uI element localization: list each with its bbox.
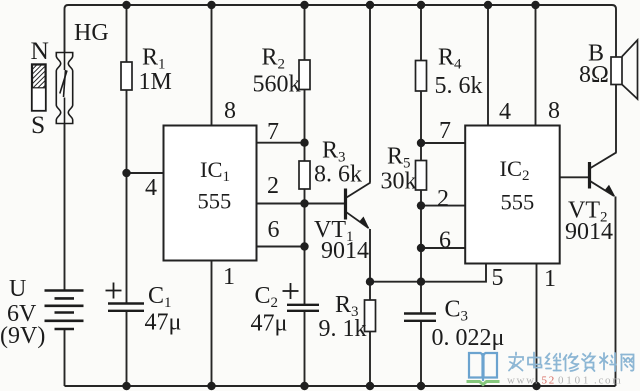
reed switch moving contact diagonal — [60, 71, 67, 94]
wire C2 to bottom rail — [304, 312, 306, 387]
wei — [546, 354, 550, 365]
svg-text:R2: R2 — [262, 45, 286, 73]
wire R1 to C1 with node at pin4 tap — [126, 90, 128, 303]
reed switch top contact lead — [64, 70, 66, 97]
speaker B cone — [622, 40, 638, 99]
svg-text:www.: www. — [507, 375, 539, 387]
reed switch wire into capsule top — [64, 52, 66, 70]
resistor R3 9.1k — [365, 300, 376, 332]
wire IC1 pin 7 — [257, 142, 305, 144]
node C3 top / pin5 wire — [417, 278, 425, 286]
zi — [583, 354, 586, 356]
node top rail junctions — [122, 1, 539, 9]
transistor VT2 emitter stroke with arrow — [591, 181, 616, 197]
wire IC1 pin 6 — [257, 246, 305, 248]
watermark book icon — [469, 353, 497, 381]
resistor R1 — [121, 62, 132, 90]
wire R2 to R3 with pin7 node — [304, 90, 306, 162]
svg-text:555: 555 — [198, 189, 232, 214]
xiu — [564, 355, 567, 360]
svg-text:8: 8 — [224, 98, 236, 124]
wire IC2 pin 8 from top rail — [535, 5, 537, 126]
svg-text:R5: R5 — [387, 144, 411, 172]
svg-text:52: 52 — [542, 375, 556, 387]
transistor VT2 base bar — [588, 162, 591, 189]
svg-text:C2: C2 — [255, 283, 279, 311]
IC U1 555 box IC1 — [164, 126, 257, 261]
wire top-right corner down to speaker — [612, 5, 616, 57]
wire R5 to C3 through pin2,pin6,pin5 nodes — [420, 190, 422, 314]
svg-text:6: 6 — [268, 217, 280, 243]
svg-text:0101: 0101 — [558, 375, 591, 387]
svg-text:7: 7 — [267, 119, 279, 145]
resistor R4 — [416, 61, 427, 92]
wire IC2 pin 5 down and left to VT1 emitter node — [370, 264, 486, 282]
wire IC1 pin 1 to bottom rail — [211, 261, 213, 387]
IC U2 555 box IC2 — [465, 126, 560, 264]
svg-text:C1: C1 — [148, 283, 172, 311]
svg-text:(9V): (9V) — [0, 323, 45, 349]
svg-text:.com: .com — [594, 375, 623, 387]
liao — [603, 353, 605, 370]
watermark chinese text — [509, 353, 634, 372]
transistor VT1 collector stroke — [347, 183, 371, 198]
wire IC2 pin 1 to bottom rail — [536, 264, 538, 387]
wire IC1 pin 4 — [127, 172, 164, 174]
wire R1 branch: top rail to R1 — [126, 5, 128, 62]
wire IC2 pin 6 — [421, 247, 465, 249]
wire VT1 emitter down to pin5 node — [369, 229, 371, 300]
svg-text:2: 2 — [267, 173, 279, 199]
watermark url text — [507, 375, 623, 387]
svg-text:6: 6 — [439, 228, 451, 254]
capacitor C1 plates — [108, 304, 144, 311]
wire C1 to bottom rail — [126, 312, 128, 387]
svg-text:C3: C3 — [445, 297, 469, 325]
wire top supply rail — [68, 4, 612, 6]
wang — [621, 355, 634, 371]
jia — [515, 353, 517, 356]
node bottom rail junctions — [122, 382, 540, 390]
svg-text:4: 4 — [145, 175, 157, 201]
wire top-left corner down to reed switch — [65, 5, 69, 52]
node IC1 pin4 tap — [122, 169, 130, 177]
svg-text:8. 6k: 8. 6k — [314, 162, 362, 188]
wire IC2 pin 4 from top rail — [487, 5, 489, 126]
svg-text:R4: R4 — [438, 45, 462, 73]
svg-text:5: 5 — [492, 265, 504, 291]
resistor R5 — [416, 161, 427, 191]
svg-text:30k: 30k — [381, 169, 417, 195]
wire IC2 pin 2 — [421, 205, 465, 207]
transistor VT2 collector stroke — [591, 152, 617, 168]
node R2/R3 pin7 tap — [300, 139, 308, 147]
wire VT2 emitter to bottom rail — [615, 197, 617, 387]
svg-text:2: 2 — [437, 186, 449, 212]
speaker B driver rect — [611, 57, 622, 85]
node pin6/C3 tap — [417, 244, 425, 252]
wire IC2 pin 7 — [421, 142, 465, 144]
capacitor C3 plates — [404, 314, 436, 321]
svg-text:S: S — [31, 110, 45, 139]
wire IC2 output to VT2 base — [560, 176, 590, 178]
node R5/pin2 tap — [417, 201, 425, 209]
svg-text:1: 1 — [544, 266, 556, 292]
wire IC1 pin 2 to VT1 base — [257, 203, 345, 205]
magnet bar N/S — [32, 64, 46, 111]
svg-text:7: 7 — [439, 118, 451, 144]
svg-text:9014: 9014 — [321, 238, 369, 264]
capacitor C2 polarity plus — [283, 283, 299, 299]
svg-text:8Ω: 8Ω — [579, 62, 609, 88]
svg-text:1: 1 — [223, 264, 235, 290]
node VT1 emitter / R3b — [366, 278, 374, 286]
node pin2/VT1 base tap — [300, 199, 308, 207]
watermark book base — [467, 382, 500, 385]
svg-text:9. 1k: 9. 1k — [319, 316, 367, 342]
wire R3 to C2 through pin2,pin6 nodes — [304, 189, 306, 305]
svg-text:560k: 560k — [253, 71, 301, 97]
resistor R2 — [299, 60, 310, 90]
svg-text:9014: 9014 — [565, 219, 613, 245]
reed switch bottom lead — [64, 98, 66, 125]
wire battery to bottom rail — [64, 330, 66, 387]
wire C3 to bottom rail — [420, 322, 422, 387]
capacitor C1 polarity plus — [106, 283, 122, 299]
svg-text:1M: 1M — [139, 69, 172, 95]
battery U cells — [45, 291, 84, 330]
svg-text:555: 555 — [501, 190, 535, 215]
svg-text:47μ: 47μ — [145, 310, 182, 336]
wire speaker to VT2 collector — [615, 85, 617, 153]
capacitor C2 plates — [287, 305, 319, 311]
svg-text:8: 8 — [548, 98, 560, 124]
transistor VT1 base bar — [344, 189, 347, 220]
node R4/R5 pin7 tap — [417, 139, 425, 147]
svg-text:5. 6k: 5. 6k — [435, 73, 483, 99]
wire bottom return rail — [65, 385, 616, 387]
resistor R3 8.6k — [299, 161, 310, 189]
node pin6/C2 tap — [300, 242, 308, 250]
wire R4 to R5 with pin7 node — [420, 91, 422, 161]
wire R2 branch: top rail to R2 — [304, 5, 306, 60]
wire VT1 collector branch from top rail — [369, 5, 371, 183]
svg-text:4: 4 — [499, 99, 511, 125]
dian — [533, 353, 535, 367]
wire IC1 pin 8 from top rail — [211, 5, 213, 126]
svg-text:N: N — [31, 36, 49, 65]
transistor VT1 emitter stroke with arrow — [347, 212, 370, 229]
wire reed switch to battery — [64, 124, 66, 290]
reed switch HG capsule — [56, 53, 72, 124]
wire R4 branch: top rail to R4 — [420, 5, 422, 61]
svg-text:HG: HG — [74, 20, 109, 46]
svg-text:47μ: 47μ — [251, 311, 288, 337]
svg-text:U: U — [9, 276, 26, 302]
wire R3b to bottom rail — [369, 332, 371, 387]
svg-text:0. 022μ: 0. 022μ — [432, 325, 505, 351]
